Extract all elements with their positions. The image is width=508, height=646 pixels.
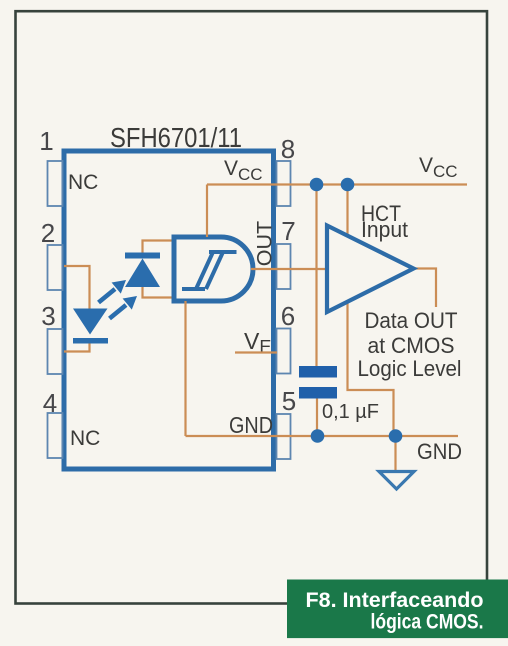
pin 2 box bbox=[48, 245, 63, 290]
svg-text:2: 2 bbox=[41, 218, 55, 248]
capacitor C1 bottom plate bbox=[299, 387, 337, 399]
svg-text:Logic Level: Logic Level bbox=[358, 356, 462, 381]
wire gate bottom down to GND bbox=[184, 301, 186, 436]
wire VCC dot down to buffer top bbox=[346, 185, 348, 236]
LED D1 cathode bar bbox=[73, 338, 108, 344]
svg-text:F8. Interfaceando: F8. Interfaceando bbox=[306, 588, 484, 612]
wire VCC down to gate top bbox=[206, 185, 208, 238]
figure caption F8 bbox=[287, 580, 508, 639]
junction dot VCC-capacitor bbox=[310, 178, 324, 192]
pin 1 box bbox=[48, 161, 63, 206]
pin 3 box bbox=[48, 329, 63, 374]
pin 5 box bbox=[277, 414, 291, 459]
wire buffer bottom down to GND rail bbox=[348, 302, 394, 436]
pin 7 box bbox=[277, 244, 291, 289]
svg-text:4: 4 bbox=[43, 388, 57, 418]
wire buffer output to Data OUT bbox=[414, 269, 437, 308]
capacitor C1 top plate bbox=[299, 366, 337, 378]
svg-text:GND: GND bbox=[229, 412, 273, 438]
wire photodiode anode to gate input top bbox=[143, 241, 175, 253]
schmitt trigger gate U1b body bbox=[174, 237, 253, 301]
buffer U2 HCT input triangle bbox=[327, 226, 414, 313]
svg-text:VCC: VCC bbox=[419, 154, 458, 181]
svg-text:Input: Input bbox=[361, 217, 409, 242]
light arrow 1 bbox=[99, 280, 127, 303]
wire GND rail through pin5 to right bbox=[186, 435, 459, 437]
photodiode D2 triangle bbox=[125, 259, 160, 288]
svg-text:GND: GND bbox=[417, 439, 462, 464]
svg-text:at CMOS: at CMOS bbox=[368, 333, 455, 358]
svg-text:5: 5 bbox=[282, 386, 296, 416]
wire GND rail to ground symbol stem bbox=[394, 436, 396, 471]
wire VE stub from pin 6 bbox=[235, 351, 277, 353]
svg-text:3: 3 bbox=[41, 301, 55, 331]
svg-text:NC: NC bbox=[70, 427, 100, 450]
schmitt trigger hysteresis symbol bbox=[182, 252, 237, 289]
svg-text:1: 1 bbox=[39, 126, 53, 156]
pin 6 box bbox=[277, 329, 291, 374]
svg-text:SFH6701/11: SFH6701/11 bbox=[110, 122, 242, 153]
svg-text:lógica CMOS.: lógica CMOS. bbox=[371, 610, 484, 634]
junction dot GND-ground symbol bbox=[389, 429, 403, 443]
pin 4 box bbox=[48, 413, 63, 458]
svg-text:VCC: VCC bbox=[224, 157, 263, 184]
svg-text:OUT: OUT bbox=[253, 221, 277, 266]
svg-text:Data OUT: Data OUT bbox=[365, 308, 458, 333]
light arrow 2 bbox=[110, 296, 138, 319]
junction dot VCC-buffer bbox=[341, 178, 355, 192]
IC U1 optocoupler SFH6701/11 body bbox=[64, 151, 274, 469]
wire gate output through pin7 to buffer input bbox=[251, 268, 327, 270]
wire capacitor bottom down to GND rail bbox=[316, 399, 318, 437]
wire pin2 to LED anode bbox=[64, 266, 90, 309]
svg-text:6: 6 bbox=[281, 301, 295, 331]
wire VCC dot down to capacitor top bbox=[315, 185, 317, 367]
svg-text:0,1 µF: 0,1 µF bbox=[322, 400, 379, 423]
wire LED cathode to pin3 bbox=[64, 344, 90, 352]
svg-text:8: 8 bbox=[281, 134, 295, 164]
pin 8 box bbox=[277, 161, 291, 206]
junction dot GND-capacitor bbox=[311, 429, 325, 443]
ground symbol bbox=[379, 472, 414, 490]
svg-text:7: 7 bbox=[281, 216, 295, 246]
wire VCC rail from inside IC to right bbox=[207, 183, 467, 185]
svg-text:NC: NC bbox=[68, 171, 98, 194]
wire photodiode cathode to gate input bottom bbox=[143, 287, 175, 298]
LED D1 emitter triangle bbox=[73, 309, 108, 335]
photodiode D2 bar bbox=[125, 253, 160, 259]
